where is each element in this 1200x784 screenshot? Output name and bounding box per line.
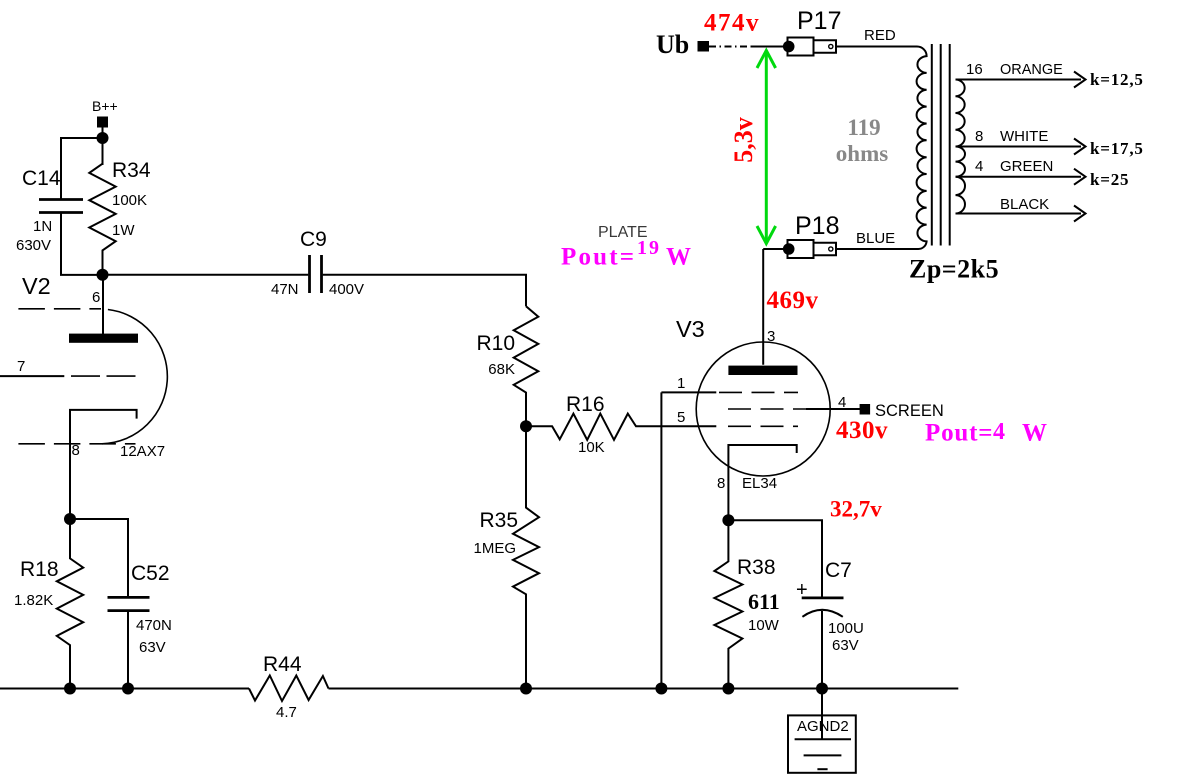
junction dot C7 bus xyxy=(816,683,828,695)
svg-text:6: 6 xyxy=(92,289,100,306)
junction dot R38 bus xyxy=(722,683,734,695)
secondary tap BLACK xyxy=(956,196,1086,222)
svg-text:32,7v: 32,7v xyxy=(830,497,882,522)
resistor R10 xyxy=(476,306,538,426)
svg-text:R34: R34 xyxy=(112,159,151,182)
tube V2 envelope dashes bottom xyxy=(18,443,135,445)
svg-text:P17: P17 xyxy=(797,7,841,35)
svg-text:C52: C52 xyxy=(131,562,170,585)
svg-text:AGND2: AGND2 xyxy=(797,718,849,735)
svg-text:V3: V3 xyxy=(676,316,705,342)
svg-text:12AX7: 12AX7 xyxy=(120,443,165,460)
svg-text:1: 1 xyxy=(677,375,685,392)
svg-text:k=17,5: k=17,5 xyxy=(1090,139,1144,158)
resistor R35 xyxy=(473,426,539,688)
svg-text:10W: 10W xyxy=(748,617,780,634)
resistor R44 xyxy=(249,653,329,721)
svg-text:8: 8 xyxy=(717,475,725,492)
annotation Pout=19 W xyxy=(561,237,691,271)
svg-text:W: W xyxy=(666,244,691,271)
V3 screen pin 4 wire xyxy=(806,408,860,410)
junction dot R35 bus xyxy=(520,683,532,695)
V3 plate bar xyxy=(728,366,797,375)
resistor R16 xyxy=(526,393,716,456)
svg-text:4: 4 xyxy=(993,419,1005,445)
ground bus wire left xyxy=(0,688,249,690)
capacitor C14 xyxy=(16,138,103,275)
wire bus to AGND2 xyxy=(821,689,823,741)
svg-text:C9: C9 xyxy=(300,228,327,251)
svg-text:+: + xyxy=(796,579,808,601)
annotation 5,3v green arrow xyxy=(757,51,776,244)
svg-text:8: 8 xyxy=(975,128,983,145)
secondary tap 8 WHITE xyxy=(956,128,1086,155)
svg-text:63V: 63V xyxy=(832,637,859,654)
V3 screen grid dashes pin 4 xyxy=(728,408,808,410)
svg-text:B++: B++ xyxy=(92,98,118,114)
svg-text:100U: 100U xyxy=(828,620,864,637)
annotation 119 ohms xyxy=(836,115,888,166)
svg-text:Ub: Ub xyxy=(656,30,689,59)
svg-text:R35: R35 xyxy=(479,509,518,532)
wire C9 to R10 xyxy=(323,275,526,307)
capacitor C52 xyxy=(70,519,172,689)
svg-text:R10: R10 xyxy=(476,332,515,355)
capacitor C9 xyxy=(271,228,364,298)
svg-text:8: 8 xyxy=(72,442,80,459)
junction dot grid-return bus xyxy=(655,683,667,695)
V3 grid-return vertical wire xyxy=(660,392,662,688)
tube V2 envelope arc xyxy=(102,310,167,444)
tube V2 envelope dashes top xyxy=(18,308,101,310)
junction dot V2 anode node xyxy=(97,269,109,281)
svg-text:430v: 430v xyxy=(836,417,888,444)
svg-text:k=12,5: k=12,5 xyxy=(1090,70,1144,89)
transformer T1 core xyxy=(932,44,950,246)
svg-text:19: 19 xyxy=(637,237,661,259)
svg-text:470N: 470N xyxy=(136,617,172,634)
svg-text:BLACK: BLACK xyxy=(1000,196,1049,213)
V2 plate bar xyxy=(69,334,138,343)
node Ub xyxy=(656,30,709,59)
tube V3 envelope circle xyxy=(696,342,830,476)
V3 control grid dashes pin 5 xyxy=(728,425,798,427)
resistor R34 xyxy=(89,159,151,275)
svg-text:R44: R44 xyxy=(263,653,302,676)
svg-text:5,3v: 5,3v xyxy=(729,117,758,163)
V2 grid dashes xyxy=(71,375,136,377)
ground bus wire right xyxy=(329,688,959,690)
svg-text:BLUE: BLUE xyxy=(856,230,895,247)
svg-text:Zp=2k5: Zp=2k5 xyxy=(909,255,999,284)
svg-text:68K: 68K xyxy=(488,361,515,378)
svg-text:R18: R18 xyxy=(20,558,59,581)
svg-text:P18: P18 xyxy=(795,212,839,240)
svg-text:16: 16 xyxy=(966,61,983,78)
svg-text:Pout=: Pout= xyxy=(925,420,993,447)
svg-text:4: 4 xyxy=(975,158,983,175)
svg-text:1MEG: 1MEG xyxy=(473,540,516,557)
svg-text:V2: V2 xyxy=(22,273,51,299)
svg-text:WHITE: WHITE xyxy=(1000,128,1048,145)
transformer T1 primary winding xyxy=(836,47,927,250)
svg-text:7: 7 xyxy=(17,358,25,375)
connector P18 xyxy=(783,212,840,258)
svg-text:63V: 63V xyxy=(139,639,166,656)
svg-text:474v: 474v xyxy=(704,10,760,37)
svg-text:469v: 469v xyxy=(767,287,819,314)
svg-text:RED: RED xyxy=(864,27,896,44)
node B++ xyxy=(92,98,118,128)
junction dot R18 bus xyxy=(64,683,76,695)
svg-text:W: W xyxy=(1022,420,1047,447)
svg-text:47N: 47N xyxy=(271,281,299,298)
svg-text:C14: C14 xyxy=(22,167,61,190)
V2 cathode pin 8 xyxy=(70,410,137,519)
annotation Pout=4 W xyxy=(925,419,1047,447)
junction dot C52 bus xyxy=(122,683,134,695)
svg-text:10K: 10K xyxy=(578,439,605,456)
svg-text:1.82K: 1.82K xyxy=(14,592,53,609)
svg-text:Pout=: Pout= xyxy=(561,244,636,271)
V3 cathode pin 8 xyxy=(728,445,796,520)
V3 suppressor grid dashes pin 1 xyxy=(719,391,798,393)
capacitor C7 xyxy=(796,559,864,689)
junction dot V3 cathode node xyxy=(722,514,734,526)
svg-text:ORANGE: ORANGE xyxy=(1000,62,1063,78)
V3 pin 1 wire xyxy=(661,391,716,393)
svg-text:400V: 400V xyxy=(329,281,364,298)
svg-text:GREEN: GREEN xyxy=(1000,158,1053,175)
V3 pin 3 wire from P18 xyxy=(762,249,764,365)
wire B++ to R34 xyxy=(102,128,104,166)
wire Ub to P17 solid xyxy=(751,46,789,48)
SCREEN terminal square xyxy=(860,404,871,415)
transformer T1 secondary winding xyxy=(956,80,966,214)
resistor R38 xyxy=(714,520,779,688)
svg-text:k=25: k=25 xyxy=(1090,170,1129,189)
svg-text:630V: 630V xyxy=(16,237,51,254)
connector P17 xyxy=(783,7,842,56)
junction dot V2 cathode node xyxy=(64,513,76,525)
svg-text:119: 119 xyxy=(847,115,880,140)
V2 grid pin 7 wire xyxy=(0,375,64,377)
svg-text:C7: C7 xyxy=(825,559,852,582)
svg-text:ohms: ohms xyxy=(836,141,888,166)
secondary tap 16 ORANGE xyxy=(956,61,1086,88)
svg-text:1W: 1W xyxy=(112,222,135,239)
svg-text:100K: 100K xyxy=(112,192,147,209)
svg-text:R38: R38 xyxy=(737,556,776,579)
svg-text:R16: R16 xyxy=(566,393,605,416)
wire anode node to C9 xyxy=(103,274,309,276)
junction dot B++ node xyxy=(97,132,109,144)
wire P18 to V3 xyxy=(763,248,784,250)
resistor R18 xyxy=(14,519,83,689)
svg-text:4.7: 4.7 xyxy=(276,704,297,721)
svg-text:1N: 1N xyxy=(33,218,52,235)
V2 plate pin 6 wire xyxy=(102,275,104,334)
wire Ub to P17 dash-dot xyxy=(709,46,753,48)
svg-text:5: 5 xyxy=(677,409,685,426)
svg-text:EL34: EL34 xyxy=(742,475,777,492)
svg-text:611: 611 xyxy=(748,589,780,614)
secondary tap 4 GREEN xyxy=(956,158,1086,185)
junction dot R10/R16/R35 xyxy=(520,420,532,432)
svg-text:4: 4 xyxy=(838,394,846,411)
ground AGND2 xyxy=(788,715,856,772)
svg-text:3: 3 xyxy=(767,328,775,345)
wire cathode node to C7 xyxy=(728,520,822,598)
